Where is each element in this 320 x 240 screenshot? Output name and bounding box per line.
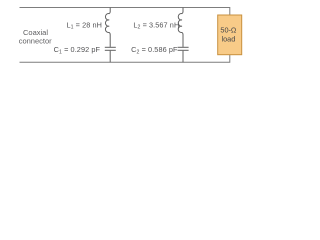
wire C1 to bottom rail bbox=[109, 51, 111, 63]
label coaxial connector bbox=[19, 28, 52, 46]
svg-text:connector: connector bbox=[19, 37, 52, 46]
capacitor C1 bbox=[105, 47, 116, 50]
svg-text:load: load bbox=[222, 34, 236, 43]
svg-text:C2 = 0.586 pF: C2 = 0.586 pF bbox=[131, 45, 178, 55]
svg-text:C1 = 0.292 pF: C1 = 0.292 pF bbox=[54, 45, 101, 55]
svg-text:L1 = 28 nH: L1 = 28 nH bbox=[66, 20, 102, 30]
wire bottom rail bbox=[20, 55, 230, 62]
svg-text:L2 = 3.567 nH: L2 = 3.567 nH bbox=[133, 20, 179, 30]
capacitor C2 bbox=[178, 47, 189, 50]
wire L2 to C2 bbox=[182, 36, 184, 47]
wire top rail bbox=[20, 8, 230, 16]
label 50-ohm load bbox=[220, 26, 237, 44]
inductor L2 bbox=[178, 8, 183, 37]
wire C2 to bottom rail bbox=[182, 51, 184, 63]
resistor RL 50-ohm load box bbox=[218, 15, 242, 55]
wire L1 to C1 bbox=[109, 36, 111, 47]
svg-text:50-Ω: 50-Ω bbox=[220, 26, 237, 35]
inductor L1 bbox=[105, 8, 110, 37]
